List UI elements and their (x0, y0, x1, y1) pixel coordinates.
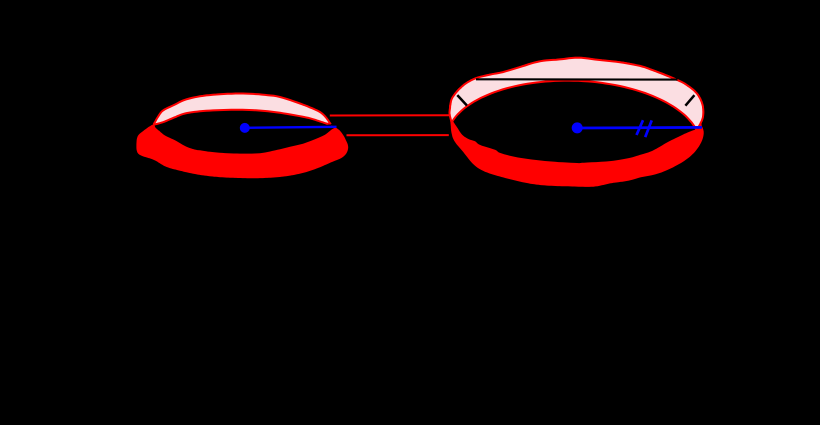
connector line bottom (347, 134, 449, 136)
right tick mark (685, 95, 694, 106)
left ring outer body (137, 110, 347, 178)
connector line top (330, 114, 449, 116)
right top surface lens (450, 58, 704, 129)
left ring top rim surface (154, 94, 330, 125)
hash mark 2 (645, 120, 652, 137)
chord line across top surface (476, 78, 678, 80)
hash mark 1 (637, 120, 644, 135)
left radius line (245, 127, 337, 128)
right center dot (572, 122, 583, 133)
left tick mark (457, 95, 467, 105)
right solid interior (453, 81, 702, 164)
right radius line (577, 126, 702, 129)
left ring interior (155, 110, 337, 154)
right solid body (450, 58, 704, 186)
left center dot (240, 123, 250, 133)
